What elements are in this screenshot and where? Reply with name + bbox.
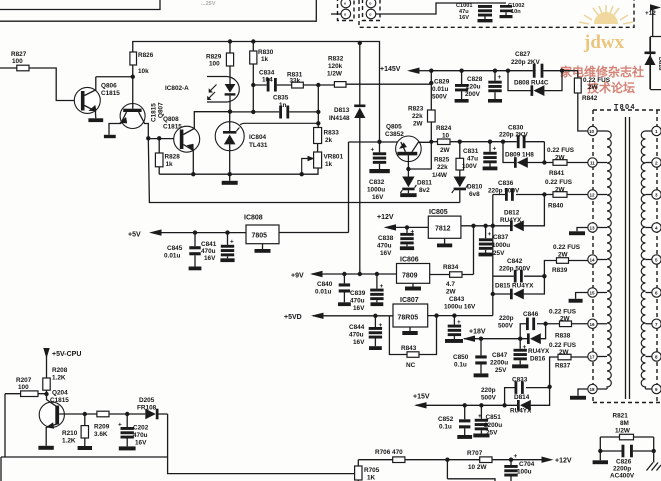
pin 3	[652, 190, 661, 199]
svg-text:1.2K: 1.2K	[52, 375, 66, 382]
node R830 top	[251, 39, 255, 43]
node C846/R838	[543, 322, 547, 326]
pin 5	[652, 255, 661, 264]
node R824 left	[429, 140, 433, 144]
svg-text:+12V: +12V	[555, 458, 572, 465]
svg-text:2200p: 2200p	[613, 466, 631, 473]
winding taps left	[597, 131, 607, 389]
svg-text:16: 16	[590, 322, 596, 327]
ground pin15	[569, 293, 588, 303]
svg-text:2200u: 2200u	[484, 422, 502, 429]
vertical 7805 feed	[348, 142, 350, 233]
capacitor C829	[432, 69, 469, 103]
svg-text:25V: 25V	[493, 250, 505, 257]
pin 13	[588, 223, 597, 232]
component box top right (cut)	[650, 37, 661, 90]
svg-text:14: 14	[590, 258, 596, 263]
svg-text:D816: D816	[530, 356, 546, 363]
wire base to R823/R824 node	[408, 142, 431, 169]
resistor R705	[355, 460, 380, 481]
svg-text:C840: C840	[317, 281, 333, 288]
+145V net label	[380, 66, 431, 74]
svg-text:D810: D810	[467, 184, 483, 191]
svg-text:+145V: +145V	[380, 66, 401, 73]
diode D809	[503, 142, 544, 168]
node D808 left	[506, 69, 510, 73]
svg-text:R706 470: R706 470	[375, 449, 403, 456]
svg-text:4: 4	[655, 226, 658, 231]
svg-text:16V: 16V	[459, 15, 469, 21]
capacitor C840	[315, 274, 351, 306]
svg-text:100: 100	[12, 58, 23, 65]
ground C826 left	[593, 451, 608, 464]
+5VD arrow label	[284, 313, 324, 321]
capacitor C838	[377, 227, 415, 257]
svg-text:500V: 500V	[481, 395, 497, 402]
resistor R829	[206, 42, 234, 85]
svg-text:IC804: IC804	[249, 134, 266, 141]
wire LED node to Q808 collector corner	[194, 111, 230, 113]
wire collector node to Q808 base	[148, 138, 180, 140]
svg-text:8M: 8M	[620, 420, 629, 427]
svg-text:R843: R843	[401, 345, 417, 352]
capacitor C831	[462, 140, 497, 171]
svg-text:100V: 100V	[462, 163, 478, 170]
node Q204 base	[44, 392, 48, 396]
svg-text:R823: R823	[408, 106, 424, 113]
svg-text:0.01u: 0.01u	[164, 253, 180, 260]
svg-text:+18V: +18V	[469, 329, 486, 336]
svg-text:3: 3	[655, 193, 658, 198]
svg-text:C1815: C1815	[50, 397, 69, 404]
svg-text:T804: T804	[614, 104, 636, 111]
pin 2	[652, 158, 661, 167]
connector P1 pin b	[341, 9, 351, 19]
svg-text:FR108: FR108	[137, 405, 157, 412]
svg-text:AC400V: AC400V	[610, 473, 635, 480]
svg-text:RU4YX: RU4YX	[500, 217, 522, 224]
capacitor C837	[479, 226, 511, 257]
node ref/R833	[316, 121, 320, 125]
node C838	[405, 225, 409, 229]
svg-text:R208: R208	[52, 367, 68, 374]
diode D818	[645, 37, 661, 89]
pin 4	[652, 223, 661, 232]
fusible resistor R840	[544, 179, 588, 210]
svg-text:IC808: IC808	[244, 215, 263, 222]
svg-text:0.22 FUS: 0.22 FUS	[553, 244, 581, 251]
node LED cathode	[228, 109, 232, 113]
svg-text:10 2W: 10 2W	[468, 464, 487, 471]
svg-text:C841: C841	[201, 241, 217, 248]
svg-text:2W: 2W	[555, 187, 566, 194]
pin 8	[652, 352, 661, 361]
svg-text:+: +	[514, 453, 518, 460]
svg-text:8v2: 8v2	[419, 187, 430, 194]
ground rail under error amp	[159, 168, 318, 174]
node C837	[483, 224, 487, 228]
node TL431 anode on rail	[228, 172, 232, 176]
svg-text:C828: C828	[467, 76, 483, 83]
78R05 output line	[428, 315, 493, 317]
svg-text:R833: R833	[324, 130, 340, 137]
pin 18	[588, 384, 597, 393]
svg-text:Q806: Q806	[101, 83, 117, 90]
capacitor C845	[164, 233, 201, 271]
svg-text:C846: C846	[523, 311, 539, 318]
diode D205	[127, 397, 167, 419]
svg-text:1n: 1n	[279, 102, 287, 109]
svg-text:C836: C836	[498, 180, 514, 187]
svg-text:R824: R824	[436, 125, 452, 132]
resistor R833	[314, 128, 340, 145]
node C833/R837	[547, 385, 551, 389]
svg-text:C829: C829	[434, 79, 450, 86]
svg-text:D205: D205	[139, 397, 155, 404]
svg-text:2W: 2W	[559, 349, 570, 356]
svg-text:+9V: +9V	[291, 273, 304, 280]
secondary winding right	[641, 131, 645, 389]
svg-text:17: 17	[590, 355, 596, 360]
svg-text:C704: C704	[519, 461, 535, 468]
svg-text:R834: R834	[443, 264, 459, 271]
capacitor C847	[490, 339, 528, 374]
resistor R207	[16, 377, 38, 397]
svg-text:Q204: Q204	[52, 390, 68, 397]
svg-text:1k: 1k	[166, 161, 174, 168]
svg-text:C833: C833	[512, 377, 528, 384]
svg-text:1/2W: 1/2W	[615, 428, 631, 435]
svg-text:7809: 7809	[402, 273, 418, 280]
diode D813	[329, 43, 365, 274]
node C845	[193, 230, 197, 234]
svg-text:16V: 16V	[353, 305, 365, 312]
resistor R826	[130, 52, 154, 77]
+18V arrow label	[463, 329, 486, 342]
wire to bottom box B	[446, 460, 448, 479]
capacitor C833	[481, 377, 550, 406]
svg-text:IC802-A: IC802-A	[165, 85, 189, 92]
node D813 bottom on +9V	[358, 272, 362, 276]
svg-text:22k: 22k	[437, 164, 448, 171]
node C826 left	[598, 449, 602, 453]
svg-text:16V: 16V	[204, 255, 216, 262]
wire LED node to C835 line	[230, 111, 279, 113]
svg-text:2W: 2W	[560, 316, 571, 323]
svg-text:16V: 16V	[353, 339, 365, 346]
svg-text:1: 1	[655, 129, 658, 134]
capacitor C843	[444, 296, 476, 343]
capacitor C851	[473, 405, 502, 437]
node Q808 emitter on rail	[191, 172, 195, 176]
svg-text:100u: 100u	[517, 469, 532, 476]
svg-text:R830: R830	[258, 49, 274, 56]
node Q807 collector	[146, 136, 150, 140]
capacitor C846	[498, 311, 546, 339]
svg-text:C850: C850	[453, 354, 469, 361]
node R707 left	[445, 458, 449, 462]
svg-text:C847: C847	[492, 352, 508, 359]
earth ground C826 right	[647, 451, 661, 471]
top-left inner box	[0, 0, 160, 10]
node R210 top	[83, 412, 87, 416]
pin 15	[588, 288, 597, 297]
svg-text:NC: NC	[406, 362, 416, 369]
fusible resistor R841	[544, 147, 588, 177]
main raw-DC vertical	[492, 195, 494, 316]
node C851	[479, 403, 483, 407]
connector pin letters	[344, 2, 372, 17]
svg-text:12: 12	[590, 193, 596, 198]
+12V arrow label	[377, 214, 428, 231]
svg-text:R826: R826	[138, 52, 154, 59]
svg-text:RU4YX: RU4YX	[528, 348, 550, 355]
node C839	[375, 272, 379, 276]
svg-text:R832: R832	[328, 56, 344, 63]
svg-text:+15V: +15V	[413, 394, 430, 401]
IC805 7812 regulator	[428, 209, 461, 247]
emitter raw line	[349, 141, 401, 143]
+5VD rail	[313, 315, 393, 317]
svg-text:1/4W: 1/4W	[432, 172, 448, 179]
+18V rail	[464, 338, 520, 340]
svg-text:+12V: +12V	[377, 214, 394, 221]
svg-text:470u: 470u	[350, 298, 365, 305]
node C832 top	[377, 140, 381, 144]
pin 11	[588, 158, 597, 167]
node C835/ref	[316, 110, 320, 114]
transistor Q806	[74, 77, 120, 122]
svg-text:IC807: IC807	[400, 297, 419, 304]
vertical raw to R834	[473, 226, 475, 275]
ground TL431	[222, 174, 238, 185]
svg-text:C838: C838	[378, 235, 394, 242]
node D809 right	[542, 160, 546, 164]
node +145V/R823	[429, 69, 433, 73]
svg-text:jdwx: jdwx	[583, 32, 625, 53]
primary winding left	[607, 131, 611, 389]
svg-text:7: 7	[655, 322, 658, 327]
svg-text:10: 10	[589, 129, 595, 134]
transformer T804 dashed box	[593, 110, 661, 403]
transistor Q204	[38, 390, 84, 450]
transistor Q805	[385, 124, 431, 170]
svg-text:0.1u: 0.1u	[439, 424, 452, 431]
svg-text:7805: 7805	[252, 233, 268, 240]
node C826 right	[652, 449, 656, 453]
svg-text:C852: C852	[438, 416, 454, 423]
capacitor C841	[201, 233, 235, 262]
svg-text:C851: C851	[486, 414, 502, 421]
node C202	[125, 412, 129, 416]
node R831/R832	[316, 83, 320, 87]
+9V arrow label	[291, 271, 323, 280]
svg-text:2W: 2W	[446, 289, 457, 296]
+12V output arrow right	[511, 457, 572, 465]
raw output line to C831	[460, 141, 503, 143]
node C843	[452, 313, 456, 317]
svg-text:+12: +12	[645, 10, 656, 17]
svg-text:D811: D811	[417, 180, 432, 187]
svg-text:120k: 120k	[328, 63, 343, 70]
+9V rail	[312, 273, 397, 275]
wire C834 branch	[253, 84, 318, 86]
svg-text:C202: C202	[133, 425, 149, 432]
svg-text:C835: C835	[273, 95, 289, 102]
resistor R828	[155, 138, 180, 174]
svg-text:1000u 16V: 1000u 16V	[444, 304, 476, 311]
wire D205 to bottom	[168, 414, 359, 474]
svg-text:104: 104	[262, 77, 273, 84]
svg-text:R829: R829	[206, 54, 222, 61]
svg-text:0.1u: 0.1u	[454, 362, 467, 369]
svg-text:2W: 2W	[558, 252, 569, 259]
capacitor C826	[600, 437, 653, 480]
node C847/C846	[518, 337, 522, 341]
node C841	[225, 230, 229, 234]
svg-text:8: 8	[655, 355, 658, 360]
svg-text:C1815: C1815	[101, 90, 120, 97]
svg-text:500V: 500V	[498, 323, 514, 330]
bottom box B	[447, 479, 495, 481]
pin 12	[588, 190, 597, 199]
ground pin18	[570, 389, 588, 400]
connector P1 dashed outline	[338, 0, 355, 21]
svg-text:2k: 2k	[325, 137, 333, 144]
svg-text:R707: R707	[467, 450, 483, 457]
capacitor C842	[493, 258, 545, 283]
svg-text:33k: 33k	[290, 78, 301, 85]
capacitor C704	[504, 453, 534, 481]
node C852	[463, 403, 467, 407]
fusible resistor R837	[549, 342, 588, 387]
svg-text:10n: 10n	[511, 9, 521, 15]
svg-text:11: 11	[590, 161, 595, 166]
transistor Q807	[104, 77, 165, 139]
node C840	[342, 272, 346, 276]
connector P1 pin a	[341, 0, 351, 8]
svg-text:C827: C827	[515, 51, 531, 58]
svg-text:R821: R821	[613, 413, 629, 420]
svg-text:5: 5	[655, 258, 658, 263]
svg-text:47u: 47u	[467, 156, 478, 163]
svg-text:R828: R828	[165, 154, 181, 161]
resistor R210	[62, 414, 92, 450]
svg-text:+: +	[488, 231, 492, 238]
svg-text:470u: 470u	[201, 248, 216, 255]
node R843 right	[434, 313, 438, 317]
svg-text:15: 15	[590, 291, 596, 296]
pin 14	[588, 255, 597, 264]
node C850	[479, 337, 483, 341]
svg-text:220p 500V: 220p 500V	[488, 188, 520, 195]
svg-text:+: +	[493, 146, 497, 153]
LED inside IC802-A	[225, 84, 236, 112]
svg-text:R827: R827	[11, 51, 27, 58]
svg-text:200V: 200V	[465, 91, 481, 98]
svg-text:2W: 2W	[413, 121, 424, 128]
svg-text:0.01u: 0.01u	[315, 289, 331, 296]
optocoupler IC802-A outline	[207, 77, 239, 103]
svg-text:C1815: C1815	[151, 103, 158, 122]
node VR801 wiper on rail	[300, 172, 304, 176]
capacitor C1002	[500, 3, 525, 18]
svg-text:R840: R840	[548, 203, 564, 210]
fusible resistor R842	[574, 71, 610, 131]
svg-text:16V: 16V	[135, 440, 147, 447]
svg-text:1k: 1k	[325, 161, 333, 168]
svg-text:220u: 220u	[466, 84, 481, 91]
svg-text:220p 500V: 220p 500V	[499, 266, 531, 273]
zener D810	[452, 177, 483, 203]
capacitor C834	[259, 70, 277, 92]
svg-text:470u: 470u	[377, 243, 392, 250]
svg-text:C834: C834	[259, 70, 275, 77]
svg-text:7812: 7812	[435, 226, 451, 233]
wire connector P2 to C1001 rail	[376, 3, 506, 14]
svg-text:500V: 500V	[432, 94, 448, 101]
node C842 right	[542, 274, 546, 278]
svg-text:C837: C837	[493, 234, 509, 241]
node C836 right	[542, 192, 546, 196]
svg-text:16V: 16V	[380, 250, 392, 257]
svg-text:IC806: IC806	[400, 257, 419, 264]
resistor R830	[250, 42, 274, 113]
diode D808	[508, 71, 562, 96]
svg-text:R837: R837	[555, 363, 571, 370]
sense line R832	[318, 83, 431, 86]
svg-text:TL431: TL431	[249, 142, 268, 149]
ground pin13	[569, 228, 588, 236]
svg-text:D815 RU4YX: D815 RU4YX	[495, 283, 534, 290]
wire stub to sense node	[430, 71, 432, 83]
svg-text:+5V-CPU: +5V-CPU	[52, 351, 81, 358]
node R828 top	[157, 136, 161, 140]
svg-text:R841: R841	[549, 170, 565, 177]
node D808/C827 right	[560, 69, 564, 73]
diode D814	[510, 387, 550, 415]
resistor R827	[11, 51, 29, 71]
svg-text:25V: 25V	[486, 430, 498, 437]
svg-text:0.01u: 0.01u	[432, 86, 448, 93]
svg-text:C830: C830	[508, 125, 524, 132]
svg-text:220p 2KV: 220p 2KV	[511, 59, 541, 66]
svg-text:C842: C842	[507, 258, 523, 265]
node C833 branch	[502, 403, 506, 407]
capacitor C832	[367, 142, 390, 201]
svg-text:+5VD: +5VD	[284, 314, 302, 321]
svg-text:0.22 FUS: 0.22 FUS	[549, 342, 577, 349]
wire R827 input	[0, 68, 75, 101]
svg-text:1K: 1K	[367, 475, 376, 481]
wire R207 input	[5, 393, 47, 395]
svg-text:6: 6	[655, 291, 658, 296]
svg-text:+: +	[230, 239, 234, 246]
svg-text:C831: C831	[463, 148, 479, 155]
svg-text:3.6K: 3.6K	[94, 431, 108, 438]
svg-text:2W: 2W	[588, 84, 599, 91]
+5V arrow label	[128, 229, 246, 238]
node raw/R834 vertical	[471, 224, 475, 228]
node R824 right	[458, 140, 462, 144]
resistor R843 bypass loop	[389, 316, 436, 369]
svg-text:10k: 10k	[138, 68, 149, 75]
top supply rail	[133, 42, 380, 142]
wire Q806 collector to node	[96, 76, 133, 78]
svg-text:0.22 FUS: 0.22 FUS	[583, 77, 611, 84]
svg-text:1000u: 1000u	[492, 242, 510, 249]
node C830 branch	[501, 140, 505, 144]
